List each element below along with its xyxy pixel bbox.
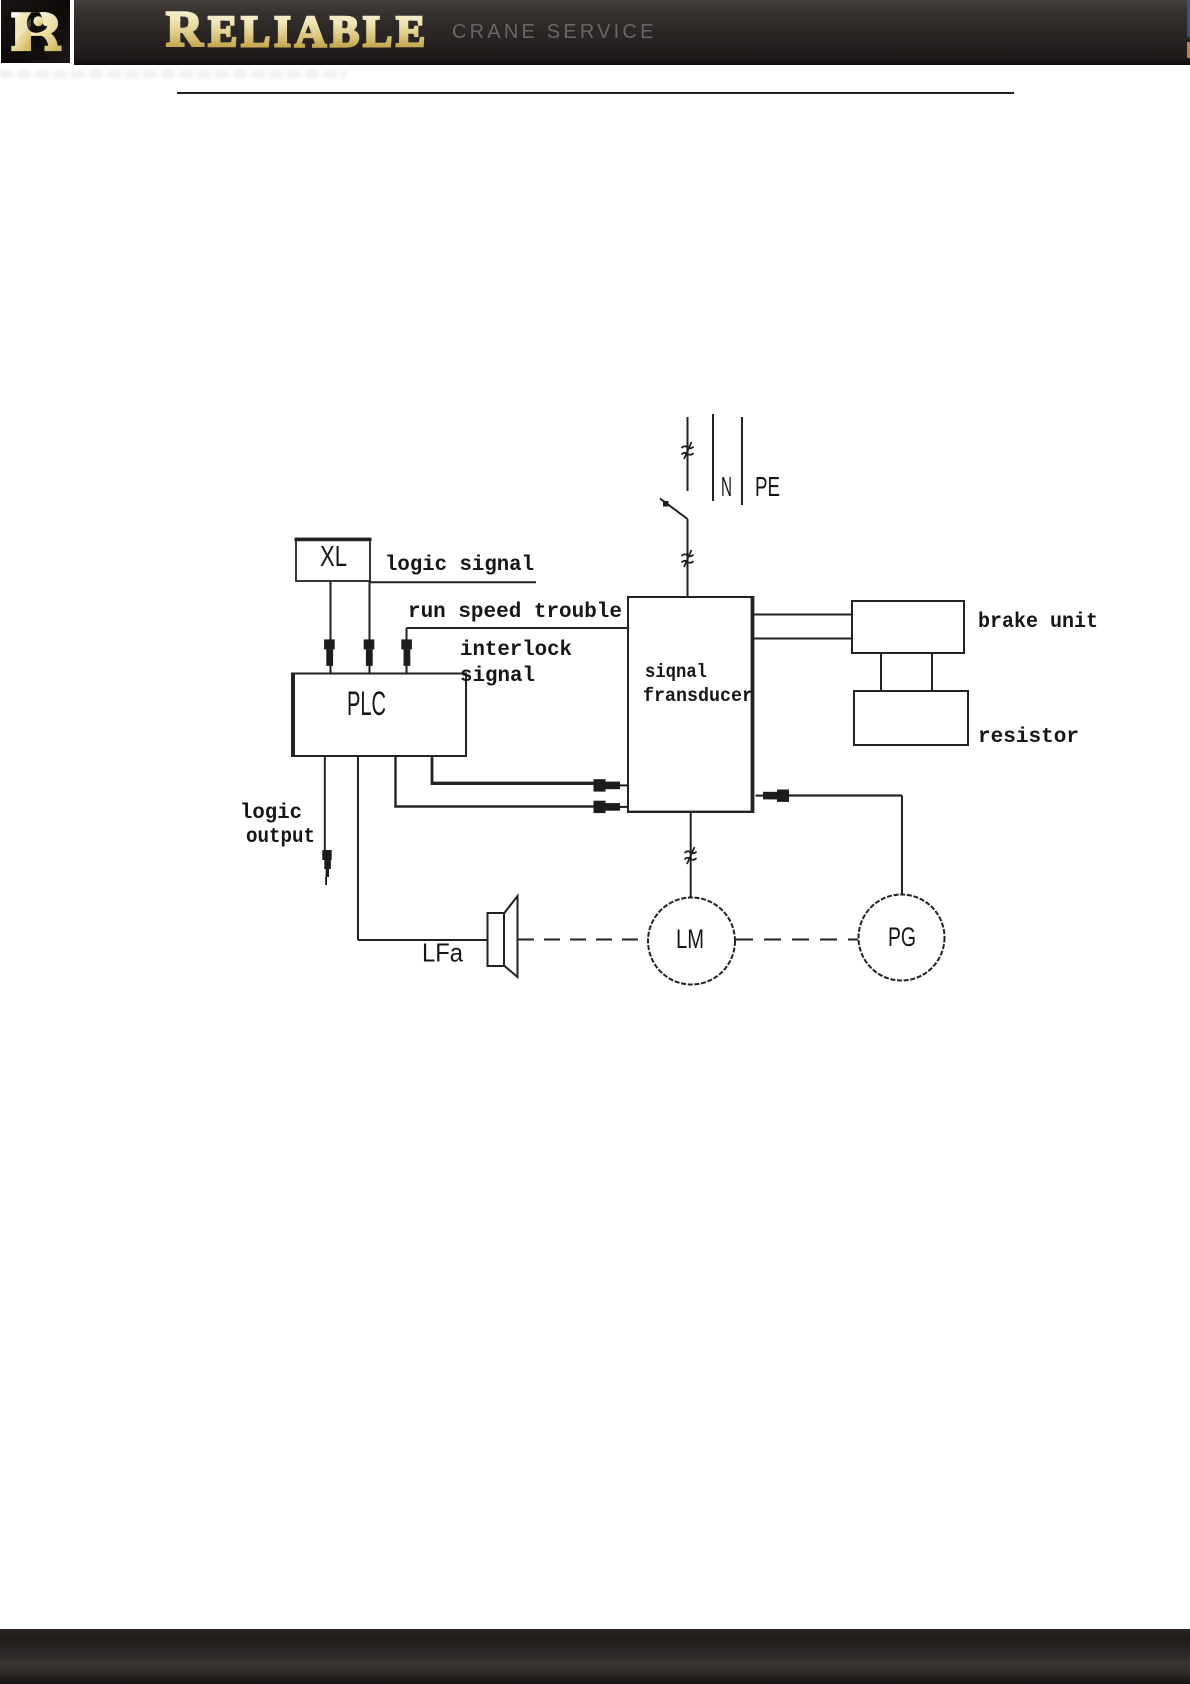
svg-text:resistor: resistor — [978, 726, 1079, 749]
svg-text:fransducer: fransducer — [643, 685, 753, 707]
svg-text:N: N — [721, 471, 732, 502]
svg-text:PLC: PLC — [347, 685, 386, 723]
svg-text:interlock: interlock — [460, 639, 572, 662]
svg-text:PG: PG — [888, 922, 916, 952]
svg-text:logic: logic — [240, 802, 302, 825]
svg-text:siqnal: siqnal — [645, 661, 707, 683]
svg-text:LM: LM — [676, 924, 704, 954]
svg-text:brake unit: brake unit — [978, 611, 1098, 634]
svg-text:PE: PE — [755, 471, 780, 502]
svg-text:LFa: LFa — [422, 938, 463, 968]
svg-text:logic signal: logic signal — [385, 554, 534, 577]
svg-text:run speed trouble: run speed trouble — [408, 601, 622, 624]
svg-text:signal: signal — [460, 665, 535, 688]
svg-text:XL: XL — [320, 541, 347, 573]
svg-text:output: output — [246, 826, 315, 849]
